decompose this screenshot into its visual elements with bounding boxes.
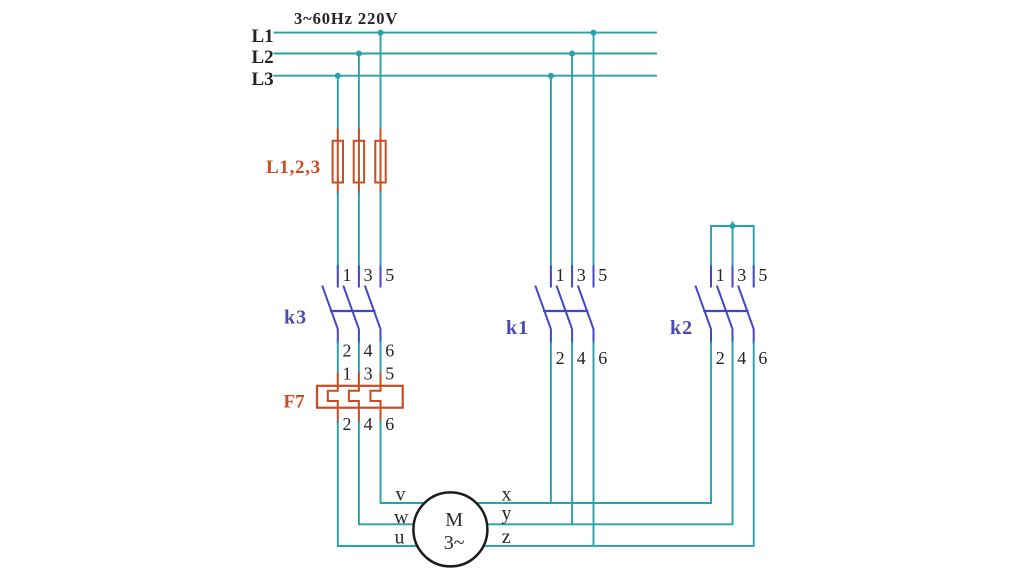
svg-text:3: 3 [364,265,373,285]
svg-text:5: 5 [385,364,394,384]
fuse L1,2,3 pole 3 body [375,141,385,183]
junction on L2 [356,51,362,57]
svg-text:4: 4 [364,341,373,361]
svg-text:6: 6 [598,348,607,368]
wire L3 down to fuse pole 1 [337,76,339,131]
wire fuse pole2 to k3 pin 3 [358,193,360,268]
wire F7 pole1 to motor terminal u [338,422,418,547]
svg-text:k3: k3 [284,307,307,329]
svg-text:6: 6 [385,414,394,434]
svg-text:v: v [396,484,406,506]
wire k1 pin 4 to node y [571,343,573,525]
svg-text:4: 4 [737,348,746,368]
motor M1 body [413,492,487,566]
svg-text:u: u [395,527,405,549]
svg-text:2: 2 [343,341,352,361]
svg-text:1: 1 [343,265,352,285]
svg-text:k2: k2 [670,317,693,339]
svg-text:2: 2 [716,348,725,368]
wire k3 pin 6 to F7 pole 3 [380,343,382,376]
svg-text:L2: L2 [252,47,274,68]
svg-text:5: 5 [758,265,767,285]
F7 pin numbers 1 3 5 [343,364,395,384]
net L2 bus wire [275,53,657,55]
wire L3 down to k1 pin 1 [550,76,552,268]
svg-text:3~: 3~ [444,532,465,554]
wire fuse pole1 to k3 pin 1 [337,193,339,268]
svg-text:F7: F7 [284,392,306,413]
wire L2 down to fuse pole 2 [358,54,360,132]
net L1 bus wire [275,32,657,34]
svg-text:z: z [502,526,511,548]
svg-text:2: 2 [343,414,352,434]
svg-text:L1: L1 [252,26,274,47]
wire k2 pin 4 to motor terminal y [487,343,733,525]
wire L1 down to fuse pole 3 [380,33,382,131]
wire k3 pin 4 to F7 pole 2 [358,343,360,376]
svg-text:y: y [502,502,512,524]
junction on L3 [335,73,341,79]
contactor k3 contacts [323,267,381,344]
junction on L3 right [548,73,554,79]
junction on L1 [378,30,384,36]
svg-text:1: 1 [343,364,352,384]
wire k2 pin 6 to motor terminal z [484,343,754,546]
net L3 bus wire [275,75,657,77]
svg-text:6: 6 [385,341,394,361]
wire k1 pin 6 to node z [593,343,595,546]
wire F7 pole2 to motor terminal w [359,422,414,525]
junction on L2 right [569,51,575,57]
svg-text:L1,2,3: L1,2,3 [266,157,321,178]
wire L1 down to k1 pin 5 [593,33,595,268]
svg-text:5: 5 [598,265,607,285]
svg-text:w: w [394,507,409,529]
wire fuse pole3 to k3 pin 5 [380,193,382,268]
wire k3 pin 2 to F7 pole 1 [337,343,339,376]
k1 pin numbers 2 4 6 [556,348,608,368]
svg-text:L3: L3 [252,69,274,90]
overload relay F7 body [317,386,403,408]
wire L2 down to k1 pin 3 [571,54,573,268]
junction on L1 right [591,30,597,36]
wire F7 pole3 to motor terminal v [381,422,425,504]
svg-text:6: 6 [758,348,767,368]
k3 pin numbers 1 3 5 [343,265,395,285]
wire k2 pin 2 to motor terminal x [476,343,711,504]
svg-text:4: 4 [364,414,373,434]
svg-text:3: 3 [364,364,373,384]
svg-text:3: 3 [737,265,746,285]
contactor k2 contacts [696,267,754,344]
svg-text:3: 3 [577,265,586,285]
contactor k1 contacts [536,267,594,344]
F7 pin numbers 2 4 6 [343,414,395,434]
k2 pin numbers 2 4 6 [716,348,768,368]
svg-text:2: 2 [556,348,565,368]
fuse group L1,2,3 lead wires [338,130,381,194]
svg-text:4: 4 [577,348,586,368]
junction on star-point bar [730,223,736,229]
svg-text:1: 1 [716,265,725,285]
wire k1 pin 2 to node x [550,343,552,504]
svg-text:k1: k1 [506,317,529,339]
star-point bar shorting k2 pins 1 3 5 [711,222,754,267]
svg-text:3~60Hz 220V: 3~60Hz 220V [294,9,398,28]
fuse L1,2,3 pole 2 body [354,141,364,183]
fuse L1,2,3 pole 1 body [333,141,343,183]
overload relay F7 heater conductors [328,374,381,423]
k1 pin numbers 1 3 5 [556,265,608,285]
svg-text:1: 1 [556,265,565,285]
k2 pin numbers 1 3 5 [716,265,768,285]
k3 pin numbers 2 4 6 [343,341,395,361]
svg-text:5: 5 [385,265,394,285]
svg-text:M: M [445,509,463,531]
